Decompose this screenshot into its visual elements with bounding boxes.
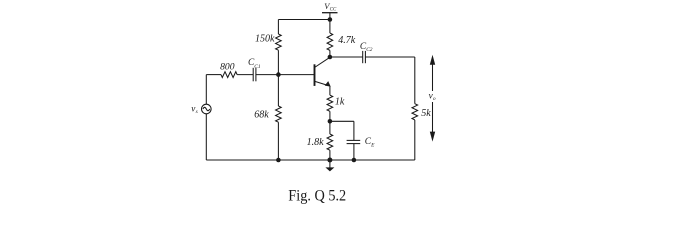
svg-text:E: E	[370, 142, 375, 148]
svg-text:150k: 150k	[255, 34, 275, 45]
svg-text:o: o	[433, 96, 436, 102]
svg-text:68k: 68k	[254, 110, 269, 121]
svg-text:C2: C2	[366, 47, 373, 53]
svg-text:5k: 5k	[421, 108, 431, 119]
svg-text:1k: 1k	[335, 97, 345, 108]
svg-text:Fig. Q 5.2: Fig. Q 5.2	[288, 187, 346, 204]
svg-text:s: s	[196, 109, 198, 115]
svg-text:800: 800	[220, 61, 235, 72]
svg-text:4.7k: 4.7k	[338, 35, 356, 46]
svg-text:CC: CC	[330, 7, 337, 12]
svg-text:1.8k: 1.8k	[307, 137, 325, 148]
svg-text:C1: C1	[254, 64, 261, 70]
